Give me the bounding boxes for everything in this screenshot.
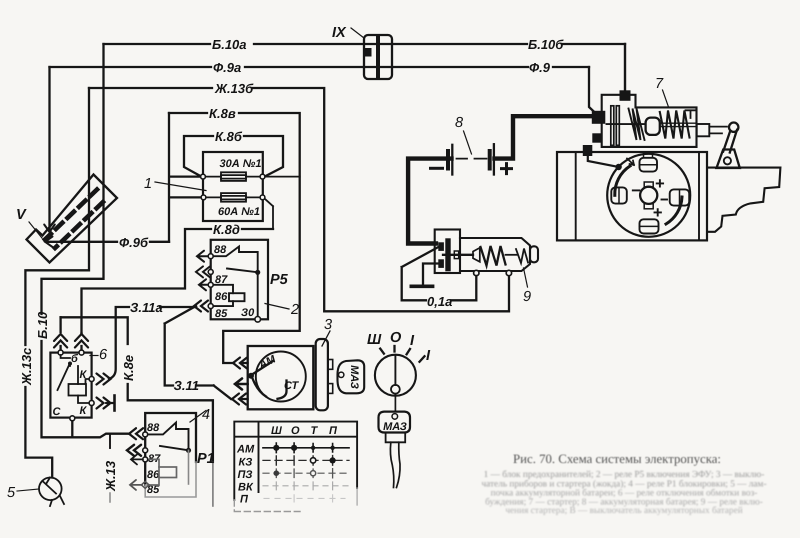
relay 9 contact bar — [445, 238, 450, 271]
lever arm — [723, 130, 737, 153]
solenoid return spring — [629, 109, 645, 141]
svg-text:К.8в: К.8в — [209, 106, 236, 121]
switch 3 face circle — [256, 352, 306, 402]
wire Ж.13б horizontal and long run to relay 9 — [89, 88, 509, 311]
node switch 3 middle pin arrow — [235, 379, 248, 390]
node fuse row2 terminals — [201, 195, 206, 200]
node relay 4 pins circles — [143, 432, 148, 462]
node P5 contact junction dot — [255, 270, 260, 275]
svg-text:К.8д: К.8д — [213, 222, 240, 237]
switch 3 cylinder tabs — [328, 360, 333, 370]
svg-text:86: 86 — [215, 291, 228, 303]
table of switch positions outer box — [234, 422, 357, 500]
wire left fuse bus vertical — [169, 113, 202, 242]
svg-text:Р5: Р5 — [270, 272, 289, 288]
lever pivot hole — [724, 157, 731, 164]
svg-text:9: 9 — [523, 289, 531, 305]
svg-text:АМ: АМ — [236, 444, 255, 456]
node arrow Ф.9а into V — [44, 225, 55, 233]
relay 4 coil faded — [148, 459, 177, 485]
relay 6 coil leads — [78, 379, 92, 403]
table faded lower borders — [234, 500, 300, 512]
svg-text:МАЗ: МАЗ — [348, 365, 360, 389]
svg-text:КЗ: КЗ — [239, 457, 253, 469]
connector IX contact dashes — [376, 37, 380, 77]
svg-text:Ж.13с: Ж.13с — [19, 347, 34, 386]
svg-text:3: 3 — [324, 317, 332, 333]
svg-text:С: С — [53, 406, 62, 418]
node relay 4 pin arrows — [127, 445, 141, 456]
svg-text:Ш: Ш — [271, 425, 282, 437]
component 4 relay Р1 box — [145, 413, 196, 485]
relay 4 contact zigzag — [148, 423, 189, 451]
label IX pointer — [351, 28, 364, 38]
svg-text:б: б — [71, 353, 79, 365]
starter motor housing — [557, 152, 707, 240]
table row КЗ dashes and dots — [263, 456, 349, 466]
wire Ф.9а vertical down into V — [48, 67, 50, 231]
svg-text:СТ: СТ — [284, 380, 300, 392]
wire Б.10а horizontal top — [104, 43, 626, 45]
solenoid left terminal squares — [592, 111, 606, 124]
label 3 pointer — [322, 331, 330, 346]
solenoid T bracket — [686, 110, 696, 118]
switch 3 lock cylinder — [316, 339, 328, 410]
svg-text:Б.10б: Б.10б — [528, 37, 564, 52]
wire Б.10а vertical to Б.10 — [42, 44, 104, 437]
component 7 starter solenoid body — [602, 95, 697, 147]
node P5 pin arrows — [196, 251, 210, 291]
node relay 4 pin4 diamond faded — [141, 481, 149, 488]
tick I — [407, 349, 410, 354]
node relay 4 contact dot — [186, 448, 191, 453]
wire Б.10б down to starter relay terminal — [624, 44, 626, 92]
component 1 fuse block box — [203, 152, 263, 221]
hanging key hole — [392, 414, 398, 420]
svg-text:З.11а: З.11а — [130, 300, 163, 315]
svg-text:К: К — [80, 405, 88, 417]
node relay 6 upper К pin chevrons — [97, 374, 111, 385]
node terminator bar — [113, 396, 116, 411]
fuse F1 30A row — [205, 172, 299, 181]
relay P5 coil — [213, 285, 245, 306]
svg-text:85: 85 — [215, 308, 228, 320]
lever knob — [729, 123, 738, 132]
battery 8 minus wire — [408, 159, 451, 244]
motor commutator circle — [640, 187, 657, 204]
svg-text:Б.10: Б.10 — [35, 311, 50, 339]
motor polarity plus top right — [657, 180, 663, 186]
node chevrons К.8в into switch top pin — [233, 358, 248, 369]
motor housing right band — [698, 152, 700, 240]
node P5 pins circles — [208, 254, 260, 322]
svg-text:60А №1: 60А №1 — [218, 206, 260, 218]
label 2 pointer — [265, 304, 289, 310]
battery 8 left cell plates — [451, 145, 453, 175]
hanging key head — [379, 412, 411, 433]
label V pointer — [29, 222, 42, 238]
relay 9 terminal squares — [438, 242, 444, 251]
node motor feed dot — [615, 164, 621, 170]
tick Ш — [380, 349, 384, 354]
svg-text:I: I — [426, 348, 431, 364]
component 9 battery switch body — [435, 230, 538, 274]
svg-text:Ф.9а: Ф.9а — [213, 60, 241, 75]
relay 9 second spring — [516, 249, 528, 264]
svg-text:0,1а: 0,1а — [427, 294, 452, 309]
key МАЗ in lock — [337, 360, 364, 393]
relay 4 box faded part — [145, 462, 196, 497]
relay 6 internal contact — [58, 355, 79, 390]
table row 4 faint — [263, 482, 348, 490]
svg-text:2: 2 — [290, 302, 299, 318]
hanging key blade — [386, 433, 406, 443]
wire З.11а from relay 6 to P5 pin 85 — [109, 307, 196, 379]
label 7 pointer — [663, 90, 669, 107]
wire Ф.9 down+diag to starter relay — [589, 67, 597, 115]
motor end view circle — [607, 154, 690, 237]
motor brush bottom — [640, 219, 659, 233]
wire solenoid to motor — [588, 156, 619, 167]
svg-text:О: О — [291, 425, 300, 437]
svg-text:О: О — [390, 330, 402, 346]
svg-text:I: I — [410, 333, 415, 349]
svg-text:8: 8 — [455, 115, 463, 131]
node relay 9 terminals — [474, 270, 479, 275]
svg-text:Т: Т — [311, 425, 319, 437]
svg-text:IX: IX — [332, 25, 347, 41]
label 4 pointer — [190, 411, 206, 423]
relay P5 contact zigzag — [213, 247, 258, 320]
wire 0,1а coil circuit — [402, 247, 477, 300]
svg-text:МАЗ: МАЗ — [383, 421, 407, 433]
label 5 pointer — [17, 489, 39, 491]
wire К.8б with corners into fuse 30A terminals — [184, 136, 283, 177]
relay 9 ground lead — [423, 264, 438, 285]
solenoid armature — [646, 118, 660, 135]
svg-text:чения стартера; В — выключател: чения стартера; В — выключатель аккумуля… — [505, 506, 742, 516]
wire К.8е faded tail — [212, 462, 214, 506]
hanging key blade curve — [390, 442, 400, 487]
svg-text:П: П — [329, 425, 338, 437]
wire К.8в horizontal and run to switch 3 — [169, 113, 300, 363]
wire К.8д from fuse to relay 6 pin — [82, 229, 274, 334]
connector IX body — [364, 35, 392, 79]
wire Ж.13 faded tail — [109, 493, 111, 502]
lever bracket — [717, 150, 740, 169]
relay 9 cone — [473, 248, 480, 262]
svg-text:4: 4 — [202, 407, 210, 423]
table row ПЗ faded dashes and dots — [263, 469, 349, 478]
connector IX key square — [365, 48, 372, 57]
node relay 4 pin 88 chevrons — [129, 428, 143, 439]
label 1 pointer line — [155, 182, 206, 191]
battery 8 omitted cells dashes — [457, 158, 487, 160]
svg-text:З.11: З.11 — [174, 378, 199, 393]
relay 6 coil — [69, 384, 87, 396]
label 8 pointer — [464, 131, 472, 154]
motor polarity minus right — [662, 199, 668, 201]
wire Ж.13б left branch to Ж.13с — [25, 88, 89, 478]
motor field arcs — [615, 166, 630, 195]
motor polarity minus left — [633, 189, 640, 191]
svg-text:З0: З0 — [241, 307, 255, 319]
engine flange outline — [708, 168, 780, 232]
tick I second — [420, 356, 425, 362]
switch rear stem to key — [394, 394, 396, 412]
node fuse row1 terminals — [201, 174, 206, 179]
label 9 pointer — [524, 268, 528, 287]
component 5 lamp — [39, 478, 64, 507]
solenoid shaft lines — [660, 123, 697, 126]
table row 5 faint — [264, 495, 345, 502]
node relay 6 internal dot — [68, 362, 72, 366]
node switch 3 common dot — [248, 373, 254, 379]
svg-text:Р1: Р1 — [197, 451, 215, 467]
drive rod — [709, 127, 727, 134]
svg-text:Ж.13: Ж.13 — [103, 460, 118, 492]
relay 9 coil spring — [481, 246, 506, 266]
node chevrons З.11а at pin 85 — [194, 301, 208, 312]
wire Ж.13 stub vertical — [109, 434, 111, 448]
component V dashed bars — [45, 190, 103, 249]
motor brush top — [640, 158, 658, 172]
motor housing left divider — [575, 152, 577, 240]
battery plus sign — [502, 164, 512, 174]
wire З.11 diagonal branch to switch CT pin — [165, 306, 231, 399]
solenoid main spring — [660, 111, 690, 139]
component 2 relay P5 box — [211, 240, 268, 319]
relay 9 plunger — [443, 254, 473, 256]
component V hatched unit — [27, 175, 118, 263]
drive lever shaft block — [697, 124, 710, 136]
node arrow Ф.9б into V — [45, 237, 53, 248]
solenoid contact plates — [611, 106, 614, 146]
svg-text:88: 88 — [147, 422, 160, 434]
node chevrons З.11 into switch bottom pin — [232, 394, 248, 405]
relay 4 vertical faded — [188, 450, 190, 484]
svg-text:ВК: ВК — [238, 482, 254, 494]
solenoid terminal top square — [620, 90, 631, 101]
tick О — [393, 346, 395, 352]
svg-text:П: П — [240, 494, 249, 506]
key МАЗ keyhole — [339, 372, 344, 377]
label 6 pointer — [90, 355, 98, 357]
svg-text:ПЗ: ПЗ — [238, 469, 253, 481]
battery minus sign — [431, 167, 443, 170]
switch 3 АМ contact arm — [252, 361, 273, 375]
wire К.8е from relay 6 pin to relay 4 area — [61, 317, 213, 462]
fuse F2 60A row — [206, 193, 273, 229]
svg-text:1 — блок предохранителей; 2 —: 1 — блок предохранителей; 2 — реле Р5 вк… — [484, 470, 765, 480]
motor brush leads top — [644, 152, 653, 158]
motor polarity plus bottom — [655, 209, 661, 215]
motor brush left — [611, 187, 627, 203]
node relay 6 lower К pin chevrons and ground bar — [97, 398, 114, 409]
svg-text:Б.10а: Б.10а — [212, 37, 247, 52]
component 6 relay box — [50, 353, 91, 418]
battery 8 plus wire — [495, 116, 595, 158]
component 3 ignition switch box — [248, 346, 314, 409]
motor lead arrow — [627, 159, 634, 166]
table row АМ line and dots — [263, 443, 349, 453]
svg-text:7: 7 — [655, 76, 664, 92]
svg-text:30А №1: 30А №1 — [220, 158, 262, 170]
svg-text:Рис. 70. Схема системы электро: Рис. 70. Схема системы электропуска: — [513, 452, 721, 466]
svg-text:Ж.13б: Ж.13б — [214, 81, 254, 96]
wire С pin to relay 4 pin 88 — [74, 434, 130, 438]
relay 9 shaft — [506, 254, 518, 256]
node relay 6 top pin circles — [58, 350, 84, 355]
motor armature squares — [644, 182, 653, 187]
ground bar — [411, 284, 432, 288]
svg-text:1: 1 — [144, 176, 152, 192]
battery 8 right cell plates — [493, 144, 495, 174]
svg-text:6: 6 — [99, 347, 108, 363]
switch 3 СТ contact — [252, 377, 287, 399]
node relay 6 right pins — [70, 377, 94, 421]
svg-text:5: 5 — [7, 485, 16, 501]
switch rear view circle — [375, 355, 416, 396]
switch rear key slot — [394, 356, 396, 386]
wire Ф.9б from unit V — [46, 241, 169, 243]
solenoid plunger rod — [607, 123, 646, 125]
svg-text:К.8е: К.8е — [121, 355, 136, 381]
svg-text:К.8б: К.8б — [215, 129, 243, 144]
svg-text:Ш: Ш — [367, 332, 382, 348]
svg-text:Ф.9: Ф.9 — [529, 60, 551, 75]
node relay 6 top pin chevrons — [54, 334, 88, 348]
motor brush right — [670, 189, 690, 205]
wire Ф.9а horizontal — [50, 66, 590, 68]
svg-text:88: 88 — [214, 244, 227, 256]
svg-text:V: V — [16, 207, 27, 223]
svg-text:Ф.9б: Ф.9б — [119, 235, 149, 250]
relay 6 top pin risers — [61, 317, 82, 350]
switch rear slot circle — [391, 385, 400, 394]
